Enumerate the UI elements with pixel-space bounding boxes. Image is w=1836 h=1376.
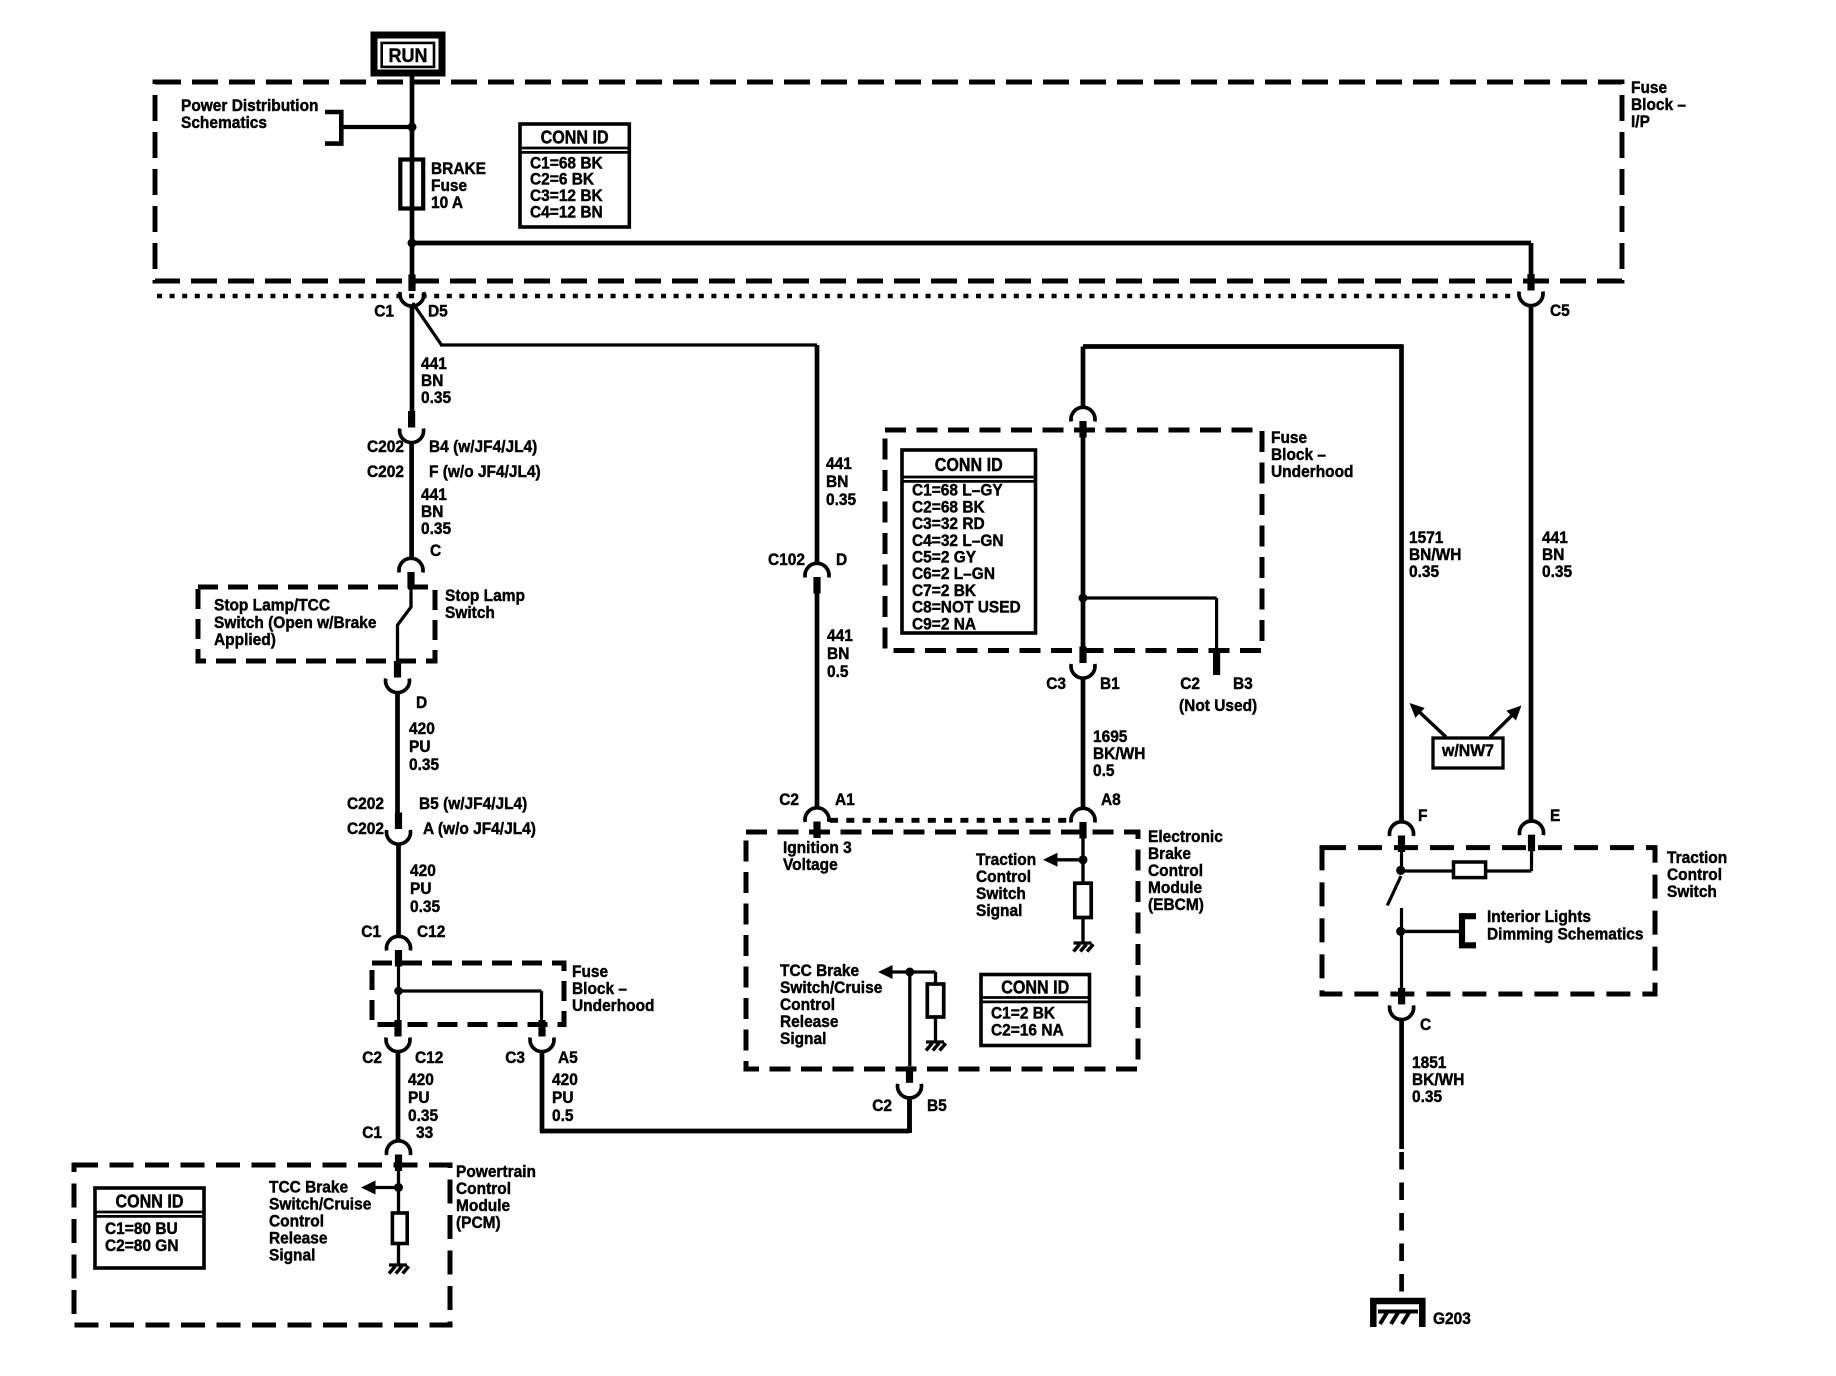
svg-text:441: 441 bbox=[826, 454, 852, 473]
svg-text:420: 420 bbox=[410, 861, 436, 880]
svg-text:G203: G203 bbox=[1433, 1309, 1471, 1328]
svg-text:Signal: Signal bbox=[976, 901, 1022, 920]
svg-text:0.35: 0.35 bbox=[421, 388, 451, 407]
svg-text:D: D bbox=[836, 550, 847, 569]
svg-text:PU: PU bbox=[408, 1088, 430, 1107]
svg-text:BN: BN bbox=[827, 644, 849, 663]
svg-text:B5 (w/JF4/JL4): B5 (w/JF4/JL4) bbox=[419, 794, 527, 813]
svg-text:A1: A1 bbox=[835, 790, 855, 809]
svg-text:0.35: 0.35 bbox=[421, 519, 451, 538]
svg-text:w/NW7: w/NW7 bbox=[1441, 741, 1494, 760]
svg-text:D5: D5 bbox=[428, 302, 448, 321]
svg-text:33: 33 bbox=[416, 1123, 433, 1142]
svg-text:Signal: Signal bbox=[780, 1029, 826, 1048]
svg-text:CONN ID: CONN ID bbox=[541, 128, 609, 148]
svg-text:C2: C2 bbox=[872, 1096, 892, 1115]
svg-text:Stop Lamp/TCC: Stop Lamp/TCC bbox=[214, 596, 330, 615]
svg-text:0.35: 0.35 bbox=[1409, 562, 1439, 581]
svg-text:PU: PU bbox=[409, 737, 431, 756]
svg-text:C2: C2 bbox=[362, 1048, 382, 1067]
svg-text:C: C bbox=[430, 541, 441, 560]
svg-text:A8: A8 bbox=[1101, 790, 1121, 809]
svg-text:0.35: 0.35 bbox=[826, 490, 856, 509]
svg-text:CONN ID: CONN ID bbox=[1001, 978, 1069, 998]
svg-text:C202: C202 bbox=[347, 819, 384, 838]
svg-text:420: 420 bbox=[409, 719, 435, 738]
svg-text:C1: C1 bbox=[374, 302, 394, 321]
svg-text:BN: BN bbox=[826, 472, 848, 491]
svg-text:0.5: 0.5 bbox=[1093, 761, 1115, 780]
svg-text:Dimming Schematics: Dimming Schematics bbox=[1487, 925, 1644, 944]
svg-text:B1: B1 bbox=[1100, 674, 1120, 693]
svg-text:Voltage: Voltage bbox=[783, 855, 838, 874]
svg-text:C12: C12 bbox=[415, 1048, 443, 1067]
svg-text:C1: C1 bbox=[361, 922, 381, 941]
svg-text:(EBCM): (EBCM) bbox=[1148, 895, 1204, 914]
svg-text:(Not Used): (Not Used) bbox=[1179, 696, 1257, 715]
svg-text:C2: C2 bbox=[1180, 674, 1200, 693]
svg-text:0.35: 0.35 bbox=[1542, 562, 1572, 581]
svg-text:C2=16 NA: C2=16 NA bbox=[991, 1021, 1064, 1040]
svg-text:0.35: 0.35 bbox=[409, 755, 439, 774]
svg-text:Schematics: Schematics bbox=[181, 113, 267, 132]
svg-text:Interior Lights: Interior Lights bbox=[1487, 907, 1591, 926]
svg-text:Signal: Signal bbox=[269, 1246, 315, 1265]
svg-text:Underhood: Underhood bbox=[572, 996, 655, 1015]
svg-text:(PCM): (PCM) bbox=[456, 1213, 501, 1232]
svg-text:Underhood: Underhood bbox=[1271, 462, 1354, 481]
svg-text:CONN ID: CONN ID bbox=[116, 1192, 184, 1212]
svg-text:C202: C202 bbox=[367, 462, 404, 481]
svg-text:C2=80 GN: C2=80 GN bbox=[105, 1236, 179, 1255]
svg-text:F: F bbox=[1418, 806, 1428, 825]
svg-text:A (w/o JF4/JL4): A (w/o JF4/JL4) bbox=[423, 819, 536, 838]
svg-text:A5: A5 bbox=[558, 1048, 578, 1067]
svg-text:PU: PU bbox=[410, 879, 432, 898]
svg-text:B3: B3 bbox=[1233, 674, 1253, 693]
svg-text:C12: C12 bbox=[417, 922, 445, 941]
svg-text:C: C bbox=[1420, 1015, 1431, 1034]
svg-text:Switch: Switch bbox=[1667, 882, 1717, 901]
svg-text:441: 441 bbox=[827, 626, 853, 645]
svg-text:B5: B5 bbox=[927, 1096, 947, 1115]
svg-text:420: 420 bbox=[552, 1070, 578, 1089]
svg-text:RUN: RUN bbox=[389, 46, 428, 67]
svg-text:C3: C3 bbox=[505, 1048, 525, 1067]
svg-text:420: 420 bbox=[408, 1070, 434, 1089]
svg-text:F (w/o JF4/JL4): F (w/o JF4/JL4) bbox=[429, 462, 541, 481]
svg-text:C4=12 BN: C4=12 BN bbox=[530, 202, 603, 221]
svg-text:D: D bbox=[416, 693, 427, 712]
svg-text:CONN ID: CONN ID bbox=[935, 455, 1003, 475]
svg-text:C2: C2 bbox=[779, 790, 799, 809]
svg-text:C202: C202 bbox=[347, 794, 384, 813]
svg-text:C5: C5 bbox=[1550, 301, 1570, 320]
svg-text:C202: C202 bbox=[367, 437, 404, 456]
svg-text:I/P: I/P bbox=[1631, 112, 1650, 131]
svg-text:Applied): Applied) bbox=[214, 630, 276, 649]
svg-text:PU: PU bbox=[552, 1088, 574, 1107]
svg-text:C3: C3 bbox=[1046, 674, 1066, 693]
svg-text:0.5: 0.5 bbox=[827, 662, 849, 681]
svg-text:C1: C1 bbox=[362, 1123, 382, 1142]
svg-text:B4 (w/JF4/JL4): B4 (w/JF4/JL4) bbox=[429, 437, 537, 456]
svg-text:10 A: 10 A bbox=[431, 193, 463, 212]
svg-text:C9=2 NA: C9=2 NA bbox=[912, 614, 976, 633]
svg-text:0.35: 0.35 bbox=[410, 897, 440, 916]
svg-text:C102: C102 bbox=[768, 550, 805, 569]
svg-text:0.35: 0.35 bbox=[1412, 1087, 1442, 1106]
svg-text:0.5: 0.5 bbox=[552, 1106, 574, 1125]
svg-text:E: E bbox=[1550, 806, 1560, 825]
svg-text:Switch: Switch bbox=[445, 603, 495, 622]
